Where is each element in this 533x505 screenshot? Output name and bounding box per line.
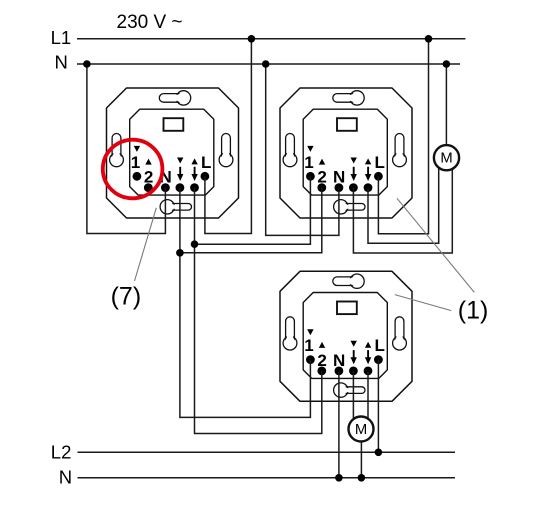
node junction L1/U1	[248, 35, 256, 43]
wire U1 up-terminal to U2 terminal 1	[195, 176, 311, 244]
motor M2	[349, 417, 374, 442]
wire U1 up-terminal to U3 terminal 2	[195, 188, 322, 434]
node junction N/U2	[262, 60, 270, 68]
wire L1 rail to U2 terminal L	[378, 39, 428, 234]
node L2 rail	[78, 451, 456, 453]
svg-text:(7): (7)	[111, 282, 142, 310]
svg-text:230 V ~: 230 V ~	[117, 12, 183, 33]
switch insert U2	[280, 88, 412, 218]
switch insert U1	[107, 88, 239, 218]
wire U3 up-terminal to motor M2	[367, 371, 369, 424]
callout line to label 7	[135, 208, 157, 281]
callout line U3 to label 1	[395, 295, 452, 311]
wire U1 terminal L to L1 rail	[205, 39, 252, 234]
node junction N/U1	[83, 60, 91, 68]
node junction N2/U3 N	[335, 474, 343, 482]
callout line U2 to label 1	[397, 198, 474, 292]
node junction N/M1	[443, 60, 451, 68]
wire N rail to U2 terminal N	[266, 64, 339, 235]
svg-text:N: N	[55, 52, 68, 73]
node junction U1 up-bus	[191, 240, 199, 248]
node junction U1 down-bus	[176, 249, 184, 257]
wire U3 terminal N to N rail bottom	[338, 371, 340, 478]
motor M1	[434, 145, 459, 170]
svg-text:L2: L2	[51, 442, 72, 463]
wire U3 terminal L to L2 rail	[377, 360, 379, 453]
wire motor M1 to U2 up-terminal	[368, 160, 439, 243]
svg-text:(1): (1)	[458, 296, 489, 324]
svg-text:N: N	[59, 466, 72, 487]
node N rail bottom	[78, 477, 456, 479]
wire N rail to U1 terminal N	[87, 64, 165, 234]
node L1 rail	[77, 38, 465, 40]
svg-text:M: M	[355, 422, 367, 438]
wire U1 down-terminal to U2 terminal 2	[180, 188, 322, 253]
node N rail top	[77, 63, 460, 65]
wire motor M1 to U2 down-terminal	[353, 160, 452, 253]
switch insert U3	[280, 271, 412, 401]
svg-text:M: M	[440, 151, 452, 167]
node junction L1/M1 branch	[425, 35, 433, 43]
wire U1 down-terminal to U3 terminal 1	[180, 188, 311, 418]
wire U3 down-terminal to motor M2	[352, 371, 354, 424]
node junction L2/U3 L	[375, 449, 383, 457]
wire N rail to motor M1	[445, 64, 447, 152]
wire motor M2 to N rail bottom	[360, 434, 362, 478]
svg-text:L1: L1	[51, 27, 72, 48]
node junction N2/M2	[358, 474, 366, 482]
marker ellipse (7)	[103, 140, 163, 199]
